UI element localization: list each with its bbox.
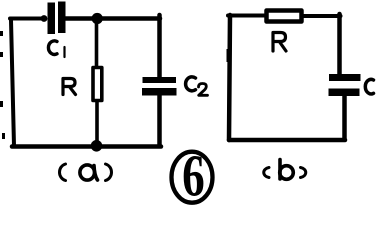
capacitor C top plate [329, 74, 361, 81]
wire: circuit (b) left vertical wire [229, 15, 230, 140]
label C (circuit b) [365, 79, 373, 94]
node: bottom junction dot [91, 140, 103, 152]
label (b): left bracket [264, 168, 269, 178]
wire blob at C1 left lead [41, 15, 48, 22]
label C2: subscript 2 [199, 84, 208, 96]
wire: circuit (a) bottom wire [12, 144, 161, 149]
scan noise speck left edge 1 [0, 31, 3, 36]
wire: circuit (a) right vertical upper [157, 15, 162, 78]
label R (circuit a) [63, 79, 76, 95]
resistor R (circuit b) [267, 11, 302, 22]
capacitor C2 bottom plate [142, 88, 177, 96]
scan noise speck left edge 4 [2, 133, 5, 139]
wire: circuit (a) top wire right segment [65, 16, 160, 21]
wire: circuit (a) right vertical lower [157, 95, 162, 146]
label C2: letter C [186, 77, 196, 91]
wire: circuit (b) top wire right segment [302, 14, 341, 18]
label (a): right bracket [106, 164, 112, 181]
wire: middle branch upper [95, 15, 99, 67]
capacitor C bottom plate [329, 89, 360, 97]
capacitor C2 top plate [143, 77, 177, 83]
svg-text:6: 6 [182, 144, 205, 207]
capacitor C1 left plate [48, 3, 56, 35]
label R (circuit b) [273, 33, 286, 52]
label (b): letter b [278, 160, 282, 180]
wire: circuit (b) right vertical upper [337, 14, 342, 75]
scan noise speck left edge 2 [0, 52, 3, 57]
resistor R (circuit a) [93, 68, 102, 101]
wire: circuit (b) top wire left segment [228, 14, 266, 18]
capacitor C1 right plate [58, 2, 66, 34]
label (a): left bracket [60, 164, 66, 181]
wire: circuit (a) left vertical wire [11, 20, 14, 146]
node: top junction dot [92, 13, 103, 24]
wire: circuit (b) right vertical lower [342, 96, 347, 140]
wire: circuit (b) bottom wire [229, 138, 345, 143]
figure number circle [172, 152, 213, 203]
scan noise speck left edge 3 [0, 101, 3, 107]
wire: circuit (a) top wire left segment [10, 17, 45, 21]
label (b): right bracket [301, 168, 306, 178]
scan roughness on circuit (b) left wire [227, 49, 230, 62]
label C1: letter C [48, 41, 57, 55]
wire: middle branch lower [95, 102, 99, 146]
label C1: subscript 1 [63, 47, 65, 57]
label (a): letter a [80, 165, 95, 180]
